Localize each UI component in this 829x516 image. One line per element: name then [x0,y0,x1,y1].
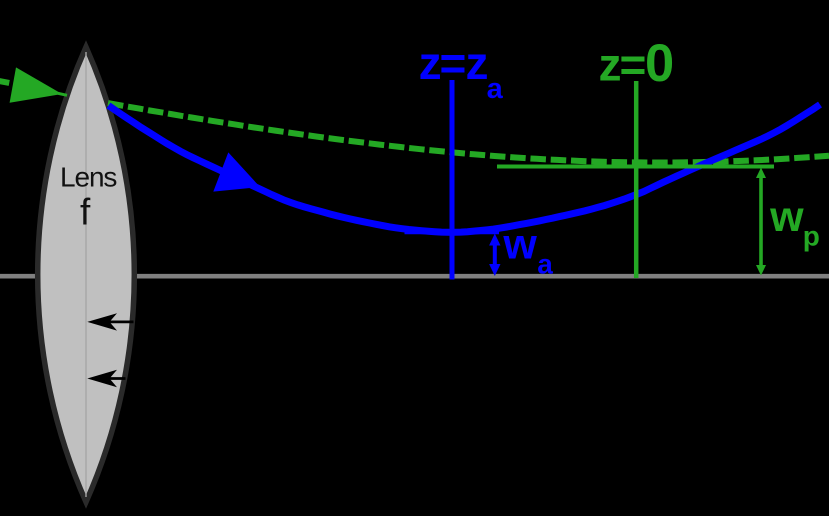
optical axis [0,274,829,279]
incoming ray tail at lens [58,93,67,95]
blue vertical line z=z_a [450,80,455,280]
green dashed ray after lens (hyperbola) [108,103,829,162]
blue double arrow w_a [489,234,500,277]
svg-text:z: z [466,37,489,89]
lens translation arrow 1 [87,313,133,330]
svg-text:0: 0 [645,34,674,93]
svg-text:Lens: Lens [60,162,116,193]
incoming green dashed ray [0,80,30,87]
incoming green arrowhead [10,67,62,102]
svg-text:a: a [487,73,504,105]
svg-text:w: w [502,221,537,269]
svg-text:p: p [803,221,820,252]
green w_p level line [497,165,774,169]
svg-text:z: z [419,37,442,89]
svg-text:=: = [620,39,647,91]
blue waist level line [405,230,500,235]
blue arrowhead on beam [213,152,260,191]
green double arrow w_p [756,168,766,276]
blue beam envelope [109,105,821,233]
svg-text:f: f [80,192,91,233]
lens body [38,47,135,502]
svg-text:w: w [769,193,804,241]
lens center line [85,52,87,497]
svg-text:=: = [440,37,467,89]
green vertical line z=0 [634,81,639,278]
lens translation arrow 2 [87,370,125,387]
svg-text:z: z [599,39,622,91]
svg-text:a: a [537,248,553,279]
